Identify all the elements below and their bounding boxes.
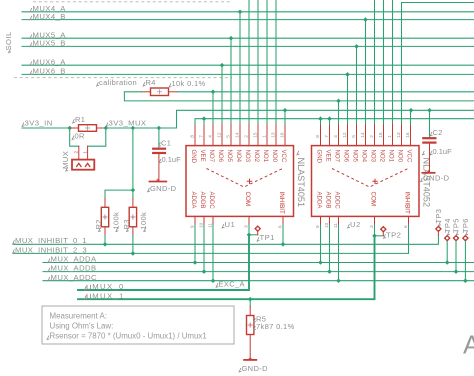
svg-text:VEE: VEE [199,150,206,162]
svg-text:GND-D: GND-D [150,184,177,193]
label R4 value 10k 0.1% [169,79,205,88]
test point TP5 [453,235,460,272]
test point TP1 [249,225,261,235]
label U2 [348,220,361,229]
svg-text:16: 16 [280,132,286,138]
svg-text:MUX_ADDB: MUX_ADDB [51,264,97,273]
wire MUX5_A to U1 NO5 [230,38,232,124]
wire 3V3_MUX down to R2/R3 [105,128,135,198]
svg-text:MUX_INHIBIT_0_1: MUX_INHIBIT_0_1 [15,236,87,245]
wire U2 VCC stub [410,110,412,124]
wire MUX4_A to U1 NO4 [239,12,241,125]
svg-text:ADDA: ADDA [190,192,197,210]
label MUX_INHIBIT_2_3 [13,245,88,254]
resistor R1 [70,125,106,132]
U2 pin 13 (NO0) [396,125,403,163]
U1 pin 12 (NO6) [217,125,224,163]
resistor R2 [101,198,108,244]
svg-text:COM: COM [369,192,376,207]
svg-text:NO2: NO2 [253,150,260,163]
svg-text:SOIL: SOIL [4,31,13,51]
svg-text:TP5: TP5 [452,218,461,233]
svg-text:7: 7 [199,135,205,138]
U2 pin 3 (COM) [369,192,376,229]
svg-text:NO1: NO1 [262,150,269,163]
label MUX_0 [84,282,124,291]
U2 pin 9 (ADDA) [315,192,322,229]
svg-text:NO5: NO5 [226,150,233,163]
label TP6 [461,218,470,235]
label MUX4_B [30,12,66,21]
svg-text:INHIBIT: INHIBIT [278,192,285,215]
svg-text:NO2: NO2 [378,150,385,163]
wire net MUX6_A [22,63,474,68]
U2 pin 11 (ADDC) [333,192,340,229]
svg-text:NO5: NO5 [351,150,358,163]
svg-text:ADDC: ADDC [333,192,340,210]
wire U1 INHIBIT stub [282,225,284,244]
U2 pin 4 (NO7) [333,125,340,163]
U1 pin 10 (ADDB) [199,192,206,229]
U1 pin 14 (NO4) [235,125,242,163]
U2 pin 5 (NO5) [351,125,358,163]
label C1 value 0.1uF [159,155,181,164]
ground GND-D (R5) [239,357,268,373]
svg-text:MUX_ADDA: MUX_ADDA [51,255,98,264]
U2 pin 16 (VCC) [405,125,412,163]
svg-text:NO6: NO6 [217,150,224,163]
svg-text:TP6: TP6 [461,218,470,233]
U1 pin 5 (NO5) [226,125,233,163]
svg-text:ADDB: ADDB [199,192,206,209]
wire net MUX_ADDB [43,269,474,274]
svg-text:TP3: TP3 [434,209,443,224]
U1 pin 13 (NO0) [271,125,278,163]
svg-text:GND-D: GND-D [423,174,450,183]
svg-text:ADDA: ADDA [315,192,322,210]
wire net MUX_ADDA [43,260,474,265]
U2 pin 12 (NO6) [342,125,349,163]
wire U2 NO7 to calibration rail [338,101,340,125]
svg-text:NO7: NO7 [333,150,340,163]
test point TP4 [444,235,451,263]
ground GND-D (C1) [148,179,177,193]
label MUX_1 [84,291,124,300]
svg-text:NO4: NO4 [235,150,242,163]
resistor R4 [142,88,178,96]
svg-text:16: 16 [405,132,411,138]
svg-text:100k: 100k [139,212,148,230]
svg-text:NO0: NO0 [271,150,278,163]
frame row letter A [463,330,474,360]
label MUX4_A [30,4,66,13]
svg-text:TP1: TP1 [260,233,275,242]
wire net R4 right to U1 NO7 and right edge [178,90,474,125]
U2 pin 1 (NO1) [387,125,394,163]
svg-text:TP4: TP4 [443,218,452,233]
label U1 value NLAST4051 [296,151,306,207]
label R4 [143,78,156,87]
svg-text:13: 13 [271,132,277,138]
svg-text:GND: GND [190,150,197,164]
svg-text:15: 15 [378,132,384,138]
svg-text:8: 8 [315,135,321,138]
svg-text:EXC_A: EXC_A [219,279,245,288]
wire MUX4_B to U2 NO4 [365,20,367,125]
svg-text:15: 15 [253,132,259,138]
svg-text:U2: U2 [350,220,361,229]
label TP5 [452,218,461,235]
op-amp-style mux IC U2 box [312,146,420,217]
svg-text:MUX6_A: MUX6_A [33,57,67,66]
label C1 [159,139,172,148]
wires cropped top to U2 NO3..NO1 [375,0,393,125]
label C2 [430,128,443,137]
U1 pin 11 (ADDC) [208,192,215,229]
svg-text:14: 14 [360,132,366,138]
wire net MUX5_A [22,36,474,41]
U2 pin 2 (NO3) [369,125,376,163]
svg-text:NLAST4051: NLAST4051 [296,158,306,208]
label R3 [122,219,131,231]
wire net calibration (R4 left, lower rail) [124,92,474,103]
wire net MUX_ADDC [43,278,474,283]
svg-text:3V3_MUX: 3V3_MUX [109,118,147,127]
svg-text:MUX4_B: MUX4_B [33,12,66,21]
wire U1 VCC stub [284,110,286,124]
U1 pin 6 (INHIBIT) [278,192,285,229]
svg-text:ADDC: ADDC [208,192,215,210]
label calibration [97,78,137,87]
svg-text:1: 1 [387,135,393,138]
svg-text:calibration: calibration [99,78,137,87]
ground GND-D (C2) [421,170,450,183]
svg-text:NO0: NO0 [396,150,403,163]
svg-text:Using Ohm's Law:: Using Ohm's Law: [50,321,114,330]
svg-text:C2: C2 [433,128,443,137]
label U2 value NLAST4052 [421,151,431,207]
svg-text:MUX6_B: MUX6_B [33,67,66,76]
label TP2 [384,230,402,239]
wire net MUX4_B [22,17,474,22]
svg-text:NO7: NO7 [208,150,215,163]
label MUX_INHIBIT_0_1 [13,236,88,245]
svg-text:2: 2 [369,135,375,138]
wire MUX6_B to U2 NO6 [347,74,349,124]
U2 pin 10 (ADDB) [324,192,331,229]
label U1 [222,220,235,229]
U2 pin 8 (GND) [315,125,322,164]
svg-text:MUX_ADDC: MUX_ADDC [51,273,98,282]
U1 pin 7 (VEE) [199,125,206,162]
label R3 value 100k [139,212,148,232]
wire net MUX_0 / EXC_A (thick) to U1 COM [78,225,251,290]
wires cropped top to U1 NO3..NO0 [249,0,276,125]
svg-text:R2: R2 [94,219,103,229]
svg-text:MUX5_B: MUX5_B [33,39,66,48]
test point TP2 [375,226,387,236]
svg-text:NO1: NO1 [387,150,394,163]
test point TP6 [462,235,469,281]
svg-text:INHIBIT: INHIBIT [403,192,410,215]
bus SOIL dashed boundary bottom [14,77,232,79]
U1 pin 2 (NO3) [244,125,251,163]
svg-text:MUX: MUX [61,151,70,169]
label TP3 [434,209,443,226]
svg-text:C1: C1 [161,139,171,148]
svg-text:0R: 0R [75,132,86,141]
svg-text:NO3: NO3 [244,150,251,163]
test point TP3 [435,225,442,235]
label TP4 [443,218,452,235]
capacitor C1 [152,128,166,181]
label MUX_ADDA [48,255,97,264]
svg-text:100k: 100k [111,212,120,230]
wire net 3V3_MUX [104,108,474,130]
svg-text:14: 14 [235,132,241,138]
wire net MUX_INHIBIT_0_1 [14,236,439,247]
svg-text:5: 5 [226,135,232,138]
op-amp-style mux IC U1 box [186,146,294,217]
svg-text:ADDB: ADDB [324,192,331,209]
wire U1 GND/VEE to ground rail [195,116,474,124]
wire net 3V3_IN [22,126,72,131]
label MUX (jumper) [61,151,70,171]
svg-text:7: 7 [324,135,330,138]
resistor R5 [247,299,254,359]
svg-text:U1: U1 [225,220,236,229]
svg-text:5: 5 [351,135,357,138]
svg-text:Rsensor = 7870 * (Umux0 - Umux: Rsensor = 7870 * (Umux0 - Umux1) / Umux1 [50,332,207,341]
svg-text:NO6: NO6 [342,150,349,163]
label MUX6_B [30,67,66,76]
label MUX6_A [30,57,66,66]
svg-text:A: A [463,330,474,360]
bus SOIL dashed boundary top [33,1,230,3]
U1 pin 3 (COM) [244,192,251,229]
note box Measurement A [42,306,234,344]
wire net MUX6_B [22,72,474,77]
svg-text:2: 2 [244,135,250,138]
U2 pin 6 (INHIBIT) [403,192,410,229]
svg-text:TP2: TP2 [386,230,401,239]
wires U1 ADDA/ADDB/ADDC stubs [195,225,213,280]
label R2 [94,219,103,231]
svg-text:0.1uF: 0.1uF [162,155,182,164]
resistor R3 [129,198,136,253]
U1 pin 1 (NO1) [262,125,269,163]
label 3V3_MUX [106,118,146,127]
U1 pin 16 (VCC) [280,125,287,163]
U1 pin 15 (NO2) [253,125,260,163]
svg-text:12: 12 [342,132,348,138]
svg-text:8: 8 [190,135,196,138]
wire net MUX5_B [22,44,474,49]
U2 pin 14 (NO4) [360,125,367,163]
label TP1 [257,233,275,242]
svg-text:NO3: NO3 [369,150,376,163]
bus label SOIL [4,31,13,53]
wires U2 ADDA/ADDB/ADDC stubs [321,225,339,280]
label R1 value 0R [72,132,85,141]
label R2 value 100k [111,212,120,232]
label MUX_ADDB [48,264,96,273]
wire net MUX_INHIBIT_2_3 [14,225,409,255]
svg-text:Measurement A:: Measurement A: [50,312,107,321]
svg-text:VEE: VEE [324,150,331,162]
label EXC_A [216,279,245,288]
solder jumper MUX [70,128,106,170]
wire net MUX_1 (thick) to U2 COM [78,225,377,301]
wire MUX6_A to U1 NO6 [221,65,223,124]
label 3V3_IN [22,118,53,127]
U1 pin 4 (NO7) [208,125,215,163]
svg-text:4: 4 [333,135,339,138]
svg-text:COM: COM [244,192,251,207]
label R5 [254,314,267,323]
capacitor C2 [422,110,436,172]
U1 pin 9 (ADDA) [190,192,197,229]
label R1 [73,115,86,124]
svg-text:VCC: VCC [280,150,287,163]
svg-text:12: 12 [217,132,223,138]
label MUX5_B [30,39,66,48]
svg-text:1: 1 [262,135,268,138]
wire MUX5_B to U2 NO5 [356,46,358,124]
svg-text:10k 0.1%: 10k 0.1% [172,79,206,88]
svg-text:NO4: NO4 [360,150,367,163]
U2 pin 7 (VEE) [324,125,331,162]
U1 pin 8 (GND) [190,125,197,164]
svg-text:MUX_0: MUX_0 [92,282,124,291]
svg-text:R1: R1 [75,115,85,124]
svg-text:R4: R4 [146,78,156,87]
U2 pin 15 (NO2) [378,125,385,163]
svg-text:4: 4 [208,135,214,138]
svg-text:GND: GND [315,150,322,164]
label MUX5_A [30,30,66,39]
wire net MUX7 (cropped) to U2 NO0 [402,3,474,125]
svg-text:13: 13 [396,132,402,138]
label C2 value 0.1uF [430,147,452,156]
svg-text:GND-D: GND-D [242,364,269,373]
svg-text:MUX_1: MUX_1 [92,291,124,300]
svg-text:0.1uF: 0.1uF [433,147,453,156]
wire net MUX4_A [22,10,474,15]
svg-text:3V3_IN: 3V3_IN [25,118,53,127]
svg-text:VCC: VCC [405,150,412,163]
label MUX_ADDC [48,273,97,282]
label R5 value 7k87 0.1% [254,322,295,331]
svg-text:R3: R3 [122,219,131,229]
svg-text:7k87 0.1%: 7k87 0.1% [256,322,295,331]
svg-text:MUX_INHIBIT_2_3: MUX_INHIBIT_2_3 [15,245,87,254]
